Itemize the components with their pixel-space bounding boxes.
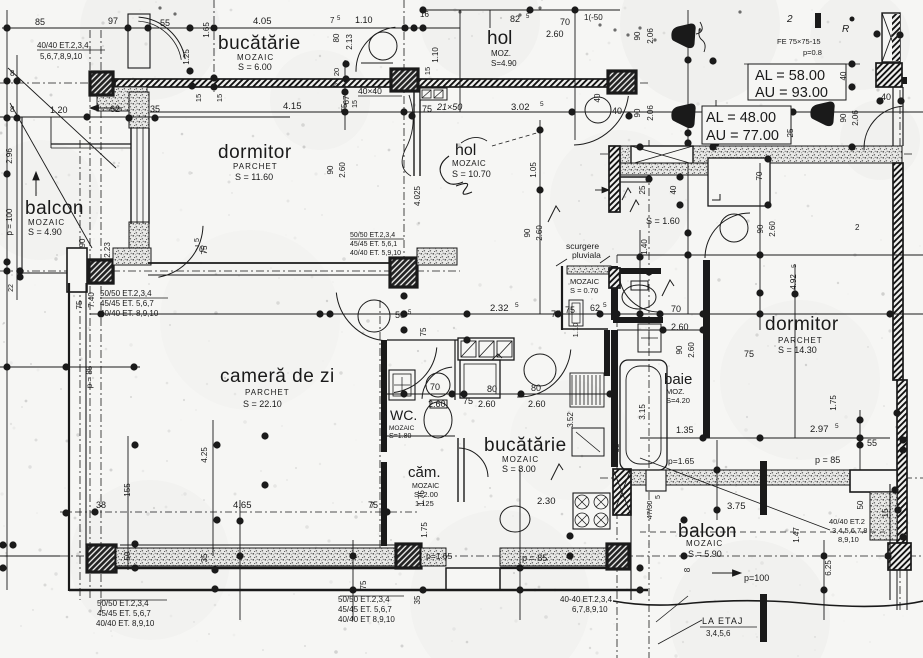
svg-text:2.60: 2.60 [671,322,689,332]
svg-text:8: 8 [10,105,15,114]
svg-text:20: 20 [332,68,341,76]
svg-text:47/30: 47/30 [645,501,654,520]
svg-text:R: R [842,24,849,35]
svg-text:2.06: 2.06 [646,28,655,44]
svg-text:90: 90 [675,345,684,354]
svg-text:5: 5 [791,264,798,268]
svg-text:67: 67 [342,95,351,104]
svg-text:82: 82 [510,14,520,24]
svg-text:8,9,10: 8,9,10 [838,535,859,544]
svg-text:2: 2 [786,14,793,25]
svg-text:p = 100: p = 100 [5,208,14,235]
svg-text:MOZAIC: MOZAIC [389,425,415,432]
svg-text:2.06: 2.06 [646,105,655,121]
svg-text:45/45 ET. 5,6,7: 45/45 ET. 5,6,7 [100,299,154,308]
svg-text:90: 90 [839,113,848,122]
svg-text:40: 40 [839,71,848,80]
svg-text:3,4,5,6: 3,4,5,6 [706,629,731,638]
svg-text:hol: hol [487,28,512,49]
svg-text:75: 75 [551,309,561,319]
svg-text:55: 55 [867,438,877,448]
svg-text:p = 85: p = 85 [815,455,840,465]
svg-text:p = 85: p = 85 [522,553,547,563]
svg-text:2.23: 2.23 [103,242,112,258]
svg-text:70: 70 [430,382,440,392]
svg-text:1.05: 1.05 [529,162,538,178]
svg-text:5: 5 [655,495,662,499]
svg-text:PARCHET: PARCHET [778,336,823,345]
svg-text:35: 35 [413,595,422,604]
svg-text:pluviala: pluviala [572,250,601,260]
svg-text:p=0.8: p=0.8 [803,48,822,57]
svg-text:MOZAIC: MOZAIC [570,277,600,286]
svg-text:1.47: 1.47 [792,527,801,543]
svg-text:p = 85: p = 85 [85,365,94,388]
svg-text:1.75: 1.75 [420,522,429,538]
svg-text:25: 25 [786,128,795,137]
svg-text:1.20: 1.20 [50,105,68,115]
svg-text:cameră de zi: cameră de zi [220,366,335,387]
svg-text:70: 70 [560,17,570,27]
svg-text:FE 75×75-15: FE 75×75-15 [777,37,821,46]
svg-text:40: 40 [881,92,891,102]
svg-text:90: 90 [756,224,765,233]
svg-text:1.75: 1.75 [829,395,838,411]
svg-text:35: 35 [150,104,160,114]
svg-text:3.02: 3.02 [511,102,530,113]
svg-text:p=1.65: p=1.65 [426,551,453,561]
svg-text:2.60: 2.60 [768,221,777,237]
svg-text:1.10: 1.10 [571,323,580,338]
svg-text:75: 75 [744,349,754,359]
svg-text:40: 40 [612,106,622,116]
svg-text:MOZAIC: MOZAIC [686,539,723,548]
svg-text:45/45 ET. 5,6,7: 45/45 ET. 5,6,7 [97,609,151,618]
svg-text:45/45 ET. 5,6,1: 45/45 ET. 5,6,1 [350,241,397,248]
svg-text:155: 155 [123,483,132,497]
svg-text:MOZ.: MOZ. [666,387,685,396]
svg-text:S = 6.00: S = 6.00 [238,62,272,72]
svg-text:15: 15 [194,94,203,102]
svg-text:40/40 ET. 5,9,10: 40/40 ET. 5,9,10 [350,250,401,257]
svg-text:90: 90 [523,228,532,237]
svg-text:90: 90 [78,238,87,247]
svg-text:97: 97 [108,16,118,26]
svg-text:S = 1.60: S = 1.60 [646,216,680,226]
svg-text:AU = 93.00: AU = 93.00 [755,85,828,101]
svg-text:38: 38 [96,500,106,510]
svg-text:7: 7 [330,16,335,25]
svg-text:45/45 ET. 5,6,7: 45/45 ET. 5,6,7 [338,605,392,614]
svg-text:S = 4.90: S = 4.90 [28,227,62,237]
svg-text:2.60: 2.60 [528,399,546,409]
svg-text:AL = 58.00: AL = 58.00 [755,68,825,84]
svg-text:1.65: 1.65 [202,22,211,38]
svg-text:p=100: p=100 [744,573,769,583]
svg-text:22: 22 [8,284,15,292]
svg-text:PARCHET: PARCHET [245,388,290,397]
svg-text:4.05: 4.05 [253,16,272,27]
svg-text:40/40 ET. 8,9,10: 40/40 ET. 8,9,10 [96,619,155,628]
svg-text:2: 2 [855,223,860,232]
svg-text:S = 10.70: S = 10.70 [452,169,491,179]
svg-text:S=1.80: S=1.80 [389,433,411,440]
svg-text:1.75: 1.75 [417,490,426,506]
svg-text:50: 50 [856,500,865,509]
svg-text:6,7,8,9,10: 6,7,8,9,10 [572,605,608,614]
svg-text:2.97: 2.97 [810,424,829,435]
svg-text:2.60: 2.60 [546,29,564,39]
svg-text:21×50: 21×50 [436,102,462,112]
svg-text:90: 90 [326,165,335,174]
svg-text:MOZAIC: MOZAIC [28,218,65,227]
svg-text:15: 15 [881,508,890,517]
svg-text:MOZAIC: MOZAIC [502,455,539,464]
svg-text:50: 50 [395,310,405,320]
svg-text:5: 5 [603,302,607,309]
svg-text:5: 5 [333,83,340,87]
svg-text:balcon: balcon [25,198,84,219]
svg-text:1.40: 1.40 [640,239,649,255]
svg-text:3.52: 3.52 [566,412,575,428]
svg-text:S=4.90: S=4.90 [491,59,517,68]
svg-text:S = 14.30: S = 14.30 [778,345,817,355]
svg-text:dormitor: dormitor [218,142,292,163]
svg-text:S = 11.60: S = 11.60 [235,172,273,182]
svg-text:4.92: 4.92 [789,274,798,290]
svg-text:70: 70 [671,304,681,314]
svg-text:hol: hol [455,142,476,159]
svg-text:4.15: 4.15 [283,101,302,112]
svg-text:50/50 ET.2,3,4: 50/50 ET.2,3,4 [100,289,152,298]
svg-text:AU = 77.00: AU = 77.00 [706,128,779,144]
svg-text:baie: baie [664,371,692,388]
svg-text:2.60: 2.60 [478,399,496,409]
svg-text:S = 22.10: S = 22.10 [243,399,282,409]
svg-text:15: 15 [423,67,432,75]
svg-text:75: 75 [419,327,428,336]
svg-text:2.60: 2.60 [338,162,347,178]
svg-text:S=4.20: S=4.20 [666,396,690,405]
svg-text:2.13: 2.13 [345,34,354,50]
svg-text:S = 8.00: S = 8.00 [502,464,536,474]
svg-text:50/50 ET.2,3,4: 50/50 ET.2,3,4 [350,232,395,239]
svg-text:2.60: 2.60 [687,342,696,358]
svg-text:7: 7 [370,501,375,510]
svg-text:75: 75 [422,104,432,114]
svg-text:2.06: 2.06 [851,110,860,126]
svg-text:40/40 ET. 8,9,10: 40/40 ET. 8,9,10 [100,309,159,318]
svg-text:40/40 ET.2,3,4: 40/40 ET.2,3,4 [37,41,89,50]
svg-text:2.60: 2.60 [535,225,544,241]
svg-text:LA ETAJ: LA ETAJ [702,616,743,626]
svg-text:62: 62 [590,303,600,313]
svg-text:25: 25 [638,185,647,194]
svg-text:4.65: 4.65 [233,500,252,511]
svg-text:80: 80 [332,33,341,42]
svg-text:40: 40 [669,185,678,194]
svg-text:40×40: 40×40 [358,86,382,96]
svg-text:35: 35 [200,553,209,562]
svg-text:5: 5 [540,101,544,108]
svg-text:5: 5 [515,302,519,309]
svg-text:50: 50 [123,551,132,560]
svg-text:WC.: WC. [390,407,417,423]
svg-text:70: 70 [755,171,764,180]
svg-text:8: 8 [683,567,692,572]
svg-text:1.35: 1.35 [676,425,694,435]
svg-text:75: 75 [75,300,84,309]
svg-text:40/40 ET 8,9,10: 40/40 ET 8,9,10 [338,615,395,624]
svg-text:40/40 ET.2: 40/40 ET.2 [829,517,865,526]
svg-text:bucătărie: bucătărie [218,33,301,54]
svg-text:3.75: 3.75 [727,501,746,512]
svg-text:6.25: 6.25 [824,560,833,576]
svg-text:1.10: 1.10 [431,47,440,63]
svg-text:90: 90 [633,31,642,40]
svg-text:15: 15 [215,94,224,102]
svg-text:16: 16 [420,10,429,19]
svg-text:75: 75 [359,580,368,589]
svg-text:4.025: 4.025 [413,185,422,206]
svg-text:bucătărie: bucătărie [484,435,567,456]
svg-text:MOZ.: MOZ. [491,49,511,58]
svg-text:2.96: 2.96 [5,148,14,164]
svg-text:MOZAIC: MOZAIC [237,53,274,62]
svg-text:PARCHET: PARCHET [233,162,278,171]
svg-text:S = 0.70: S = 0.70 [570,286,598,295]
svg-text:5: 5 [835,423,839,430]
svg-text:40-40 ET.2,3,4: 40-40 ET.2,3,4 [560,595,613,604]
svg-text:5,6,7,8,9,10: 5,6,7,8,9,10 [40,52,83,61]
svg-text:62: 62 [110,104,120,114]
svg-text:dormitor: dormitor [765,314,839,335]
svg-text:AL = 48.00: AL = 48.00 [706,110,776,126]
svg-text:1.10: 1.10 [355,15,373,25]
svg-text:3.15: 3.15 [638,404,647,420]
svg-text:MOZAIC: MOZAIC [412,483,439,490]
svg-text:2.32: 2.32 [490,303,509,314]
svg-text:90: 90 [633,108,642,117]
svg-text:80: 80 [487,384,497,394]
svg-text:7.40: 7.40 [87,292,96,308]
svg-text:4.25: 4.25 [200,447,209,463]
svg-text:2.30: 2.30 [537,496,556,507]
svg-text:85: 85 [35,17,45,27]
svg-text:MOZAIC: MOZAIC [452,159,486,168]
svg-text:15: 15 [352,100,359,108]
svg-text:p=1.65: p=1.65 [668,456,695,466]
svg-text:1(-50: 1(-50 [584,13,603,22]
svg-text:căm.: căm. [408,464,441,481]
svg-text:3,4,5,6,7,8: 3,4,5,6,7,8 [832,526,867,535]
svg-text:75: 75 [565,305,575,315]
svg-text:S = 5.90: S = 5.90 [688,549,722,559]
svg-text:75: 75 [200,245,209,254]
